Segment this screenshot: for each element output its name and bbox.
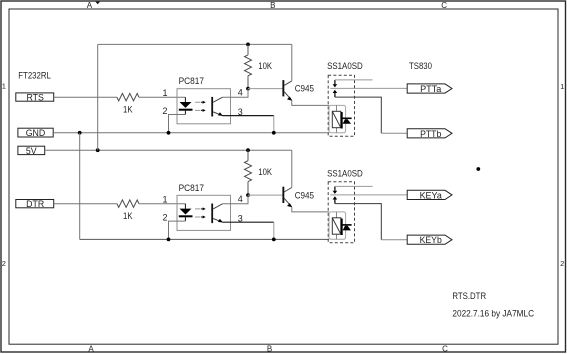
junction GND rail / U1 pin2	[167, 131, 171, 135]
wire GND down to lower rail	[79, 133, 81, 240]
wire GND rail	[53, 132, 329, 134]
junction 5V / R4	[246, 148, 250, 152]
SSR2 dashed outline	[328, 182, 354, 243]
svg-text:RTS: RTS	[26, 93, 44, 103]
svg-text:B: B	[270, 1, 275, 10]
transistor Q1 C945	[282, 80, 292, 101]
wire Q2 emitter to SSR2	[292, 207, 329, 212]
wire U2 pin2 to lower GND rail	[169, 221, 186, 239]
wire R1 to U1 pin1	[139, 96, 186, 98]
svg-text:C: C	[441, 1, 447, 10]
svg-text:1: 1	[2, 82, 6, 91]
wire SSR2 to KEYb	[335, 204, 381, 240]
wire U2 pin3 to GND	[223, 221, 274, 223]
svg-text:TS830: TS830	[409, 61, 432, 71]
svg-text:PTTa: PTTa	[420, 84, 442, 94]
wire U2 pin4 to junction	[223, 195, 249, 204]
wire base Q2	[248, 194, 283, 196]
SSR1 dashed outline	[328, 75, 354, 136]
net flag KEYa	[407, 190, 452, 200]
resistor R3 1K	[117, 200, 139, 208]
SSR2 contact arrow down	[333, 186, 338, 194]
svg-text:1K: 1K	[123, 211, 133, 221]
junction R2 / base / pin4	[246, 87, 250, 91]
wire R3 to U2 pin1	[139, 203, 186, 205]
svg-text:10K: 10K	[258, 61, 272, 71]
wire U1 pin3 to GND	[223, 115, 274, 117]
wire SSR1 to PTTb	[335, 97, 381, 133]
svg-text:A: A	[87, 1, 93, 10]
svg-text:B: B	[267, 345, 272, 354]
wire SSR1 stub	[335, 79, 373, 81]
junction GND rail / vertical	[78, 131, 82, 135]
transistor Q2 C945	[282, 187, 292, 208]
svg-text:1K: 1K	[123, 104, 133, 114]
optocoupler U2 PC817 body	[177, 195, 231, 230]
svg-text:C945: C945	[295, 190, 314, 200]
wire 5V rail	[45, 149, 292, 151]
svg-text:PC817: PC817	[179, 76, 204, 86]
net flag PTTb	[407, 129, 452, 139]
net flag PTTa	[407, 84, 452, 94]
wire Q1 collector	[291, 44, 293, 81]
svg-text:FT232RL: FT232RL	[18, 70, 51, 80]
svg-text:PC817: PC817	[179, 183, 204, 193]
stray junction dot	[476, 167, 480, 171]
net label GND	[18, 128, 53, 138]
junction R4 / base / pin4	[246, 193, 250, 197]
wire SSR2 stub	[335, 185, 373, 187]
SSR1 coil body	[329, 105, 352, 132]
svg-text:2: 2	[2, 259, 6, 268]
wire U1 pin2 to GND rail	[169, 115, 186, 133]
junction top rail / R2	[246, 43, 250, 47]
junction lower rail / U2 pin2	[167, 238, 171, 242]
svg-text:A: A	[88, 345, 94, 354]
wire U1 pin4 to junction	[223, 89, 249, 98]
svg-text:KEYb: KEYb	[420, 235, 442, 245]
wire SSR1 to PTTa	[330, 87, 407, 89]
resistor R2 10K	[245, 44, 252, 88]
junction pin3 / lower rail	[272, 238, 276, 242]
svg-text:PTTb: PTTb	[420, 129, 441, 139]
svg-text:C: C	[442, 345, 448, 354]
sheet fold tick	[95, 2, 100, 5]
wire Q1 emitter to SSR1	[292, 100, 329, 105]
optocoupler U1 PC817 body	[177, 89, 231, 124]
SSR2 coil body	[329, 212, 352, 240]
wire SSR2 to KEYa	[330, 194, 407, 196]
svg-text:SS1A0SD: SS1A0SD	[327, 61, 363, 71]
net label DTR	[16, 199, 54, 209]
svg-text:DTR: DTR	[26, 199, 44, 209]
SSR1 contact arrow down	[333, 80, 338, 88]
net label RTS	[16, 93, 54, 103]
svg-text:KEYa: KEYa	[420, 190, 443, 200]
wire DTR to R3	[54, 203, 117, 205]
svg-text:5V: 5V	[26, 146, 37, 156]
svg-text:1: 1	[162, 194, 167, 204]
svg-text:1: 1	[560, 82, 564, 91]
wire Q2 collector	[291, 150, 293, 187]
svg-text:2: 2	[560, 259, 564, 268]
resistor R1 1K	[117, 93, 139, 101]
svg-text:2: 2	[162, 213, 167, 223]
SSR1 contact arrow up	[333, 90, 338, 97]
svg-text:10K: 10K	[258, 167, 272, 177]
junction 5V / riser	[96, 148, 100, 152]
svg-text:2022.7.16 by JA7MLC: 2022.7.16 by JA7MLC	[452, 309, 534, 319]
wire top rail	[98, 43, 292, 45]
net label 5V	[18, 146, 45, 156]
svg-text:4: 4	[238, 88, 243, 98]
wire 5V riser to top rail	[97, 44, 99, 150]
svg-text:2: 2	[162, 106, 167, 116]
svg-text:C945: C945	[295, 84, 314, 94]
net flag KEYb	[407, 235, 452, 245]
wire lower GND rail	[80, 238, 329, 240]
junction pin3 / GND rail	[272, 131, 276, 135]
svg-text:RTS.DTR: RTS.DTR	[452, 291, 486, 301]
svg-text:4: 4	[238, 194, 243, 204]
wire RTS to R1	[54, 96, 117, 98]
svg-text:GND: GND	[26, 128, 46, 138]
resistor R4 10K	[245, 150, 252, 195]
SSR2 contact arrow up	[333, 196, 338, 203]
svg-text:SS1A0SD: SS1A0SD	[327, 168, 363, 178]
wire base Q1	[248, 88, 283, 90]
svg-text:1: 1	[162, 88, 167, 98]
